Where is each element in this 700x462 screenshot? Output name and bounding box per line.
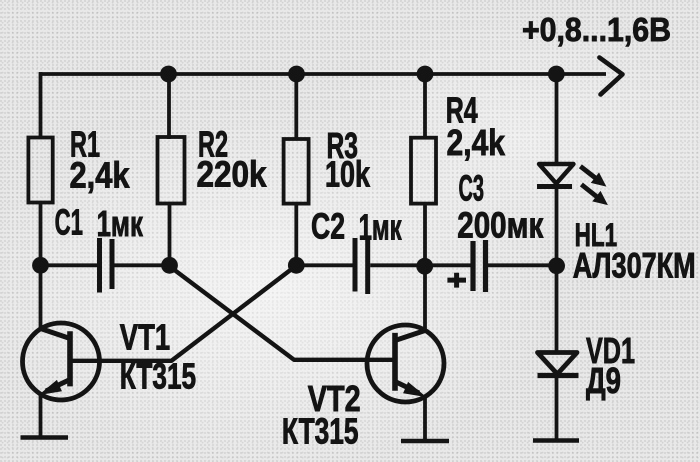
wire C2 right (370, 263, 425, 267)
svg-text:С1: С1 (55, 203, 83, 243)
resistor R2 (158, 125, 267, 204)
capacitor C1 (55, 203, 144, 293)
wire R3 top lead (294, 74, 298, 140)
wire R3 bottom lead (294, 204, 298, 266)
svg-text:VT1: VT1 (120, 317, 170, 357)
wire C1 right (115, 263, 170, 267)
junction node R4/rail (417, 66, 434, 83)
wire HL1 cathode lead (555, 187, 559, 266)
wire base cross-coupling C1/VT2 diagonal (169, 266, 396, 360)
svg-text:220k: 220k (197, 155, 267, 195)
junction node R1/C1 (32, 257, 49, 274)
wire VT1 collector lead (39, 264, 43, 329)
wire R4 top lead (423, 74, 427, 139)
wire top supply rail (39, 72, 606, 76)
junction node R2/rail (160, 66, 177, 83)
svg-text:АЛ307КМ: АЛ307КМ (573, 246, 696, 285)
svg-text:КТ315: КТ315 (120, 357, 196, 397)
wire R4 bottom lead (423, 204, 427, 266)
wire HL1 top lead (555, 74, 559, 165)
wire C3 left (425, 263, 471, 267)
svg-text:1мк: 1мк (97, 204, 144, 244)
wire C3 right (488, 263, 557, 267)
diode VD1 (538, 331, 636, 401)
junction node C2/R4/C3/VT2-collector (416, 258, 433, 275)
junction node C1/R2/VT2-base (161, 257, 178, 274)
LED light emission arrows (580, 166, 606, 204)
svg-text:2,4k: 2,4k (70, 156, 130, 196)
resistor R3 (284, 125, 371, 203)
svg-text:Д9: Д9 (586, 360, 621, 400)
svg-text:КТ315: КТ315 (282, 410, 359, 451)
wire R2 bottom lead (168, 204, 172, 267)
wire VT2 collector lead (423, 264, 427, 330)
wire R2 top lead (167, 74, 171, 139)
wire base cross-coupling C2/VT1 diagonal (70, 266, 296, 361)
ground stub VT2 emitter (401, 439, 449, 443)
ground stub VT1 emitter (21, 435, 69, 439)
transistor VT2 (282, 325, 444, 451)
C3 plus polarity sign (447, 273, 466, 288)
junction node HL1/rail (548, 66, 565, 83)
svg-text:1мк: 1мк (359, 208, 403, 248)
wire VT1 emitter lead (39, 394, 43, 438)
wire R1 bottom lead (39, 203, 43, 267)
svg-text:2,4k: 2,4k (447, 124, 506, 164)
svg-text:+0,8...1,6В: +0,8...1,6В (522, 11, 671, 49)
junction node C3/HL1/VD1 (548, 257, 565, 274)
wire R1 top lead (39, 72, 43, 139)
resistor R1 (28, 125, 129, 203)
svg-text:С3: С3 (459, 170, 485, 210)
capacitor C3 (electrolytic) (457, 170, 543, 292)
transistor VT1 (23, 317, 197, 400)
capacitor C2 (311, 206, 402, 294)
wire C2 left (296, 263, 352, 267)
svg-text:200мк: 200мк (457, 205, 543, 245)
svg-text:С2: С2 (311, 206, 345, 247)
wire VT2 emitter lead (423, 397, 427, 442)
ground stub VD1 (533, 438, 579, 442)
power arrow (599, 58, 622, 95)
wire VD1 anode lead (555, 265, 559, 353)
svg-text:10k: 10k (325, 154, 370, 195)
wire VD1 bottom lead (555, 376, 559, 441)
resistor R4 (411, 90, 505, 204)
LED HL1 (537, 164, 696, 286)
junction node R3/C2/VT1-base (288, 257, 305, 274)
wire C1 left (41, 263, 98, 267)
junction node R3/rail (288, 66, 305, 83)
